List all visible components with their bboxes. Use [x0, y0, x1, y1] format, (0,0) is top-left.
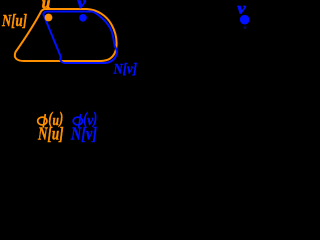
svg-text:N[v]: N[v] — [70, 124, 97, 144]
region N[u] outline (orange blob) — [15, 9, 117, 61]
right diagram: vertex dot (blue) — [240, 15, 250, 25]
region N[v] outline (blue blob) — [43, 12, 117, 64]
legend phi(v): phi glyph (blue) — [73, 114, 82, 128]
right diagram: faint mark below dot — [243, 26, 246, 29]
vertex v dot (blue) — [79, 14, 87, 22]
vertex u dot (orange) — [45, 14, 53, 22]
svg-text:N[v]: N[v] — [113, 60, 137, 77]
svg-text:N[u]: N[u] — [37, 124, 63, 144]
svg-text:u: u — [42, 0, 51, 12]
legend phi(u): phi glyph (orange) — [38, 114, 47, 128]
svg-text:v: v — [77, 0, 87, 12]
svg-text:v: v — [237, 0, 247, 17]
svg-text:N[u]: N[u] — [1, 11, 27, 30]
